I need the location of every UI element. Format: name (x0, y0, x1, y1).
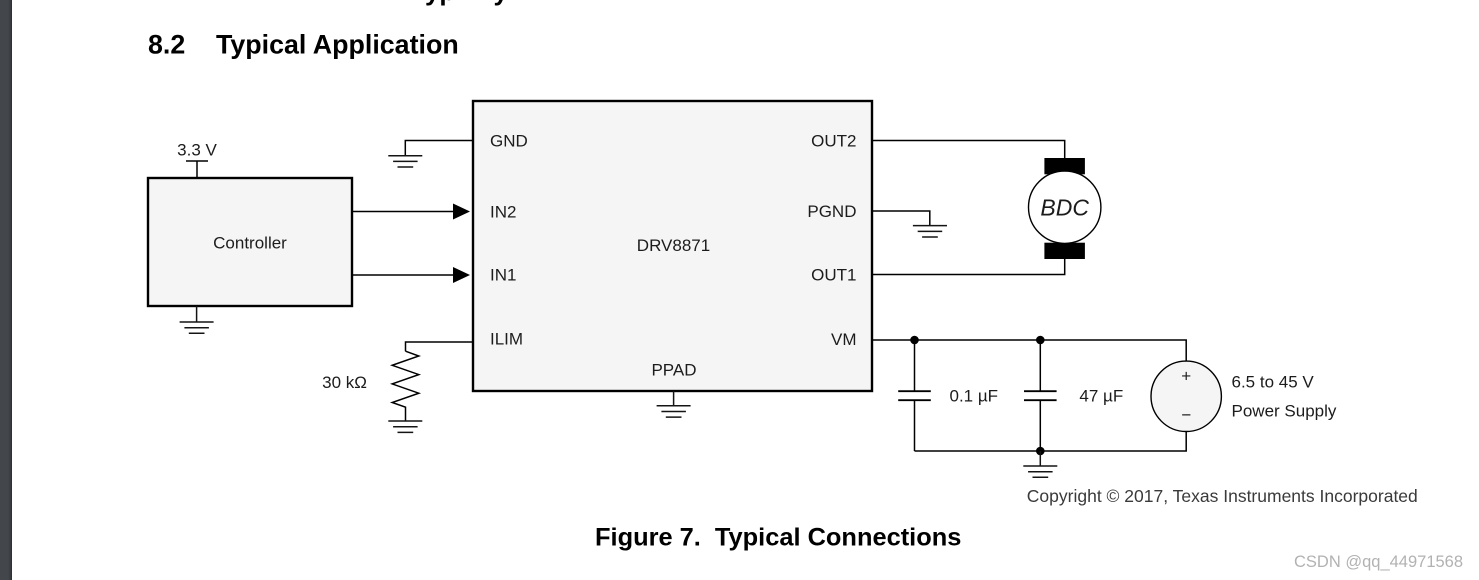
svg-text:PGND: PGND (807, 202, 856, 221)
wire IN1 with arrow (352, 267, 470, 283)
svg-text:Figure 7. Typical Connections: Figure 7. Typical Connections (595, 524, 961, 552)
wire VM rail (872, 340, 1186, 361)
resistor 30 kOhm (392, 351, 419, 421)
ground (supply rail) (1023, 451, 1057, 477)
svg-text:3.3 V: 3.3 V (177, 141, 217, 160)
svg-text:OUT2: OUT2 (811, 132, 856, 151)
svg-text:BDC: BDC (1040, 194, 1089, 220)
svg-text:47 µF: 47 µF (1079, 387, 1123, 406)
svg-text:OUT1: OUT1 (811, 265, 856, 284)
svg-text:0.1 µF: 0.1 µF (950, 387, 999, 406)
svg-text:IN1: IN1 (490, 266, 516, 285)
wire IN2 with arrow (352, 204, 470, 220)
svg-text:6.5 to 45 V: 6.5 to 45 V (1232, 372, 1315, 391)
junction dot VM/C2 (1036, 336, 1045, 345)
junction dot ground rail (1036, 447, 1045, 456)
svg-text:DRV8871: DRV8871 (637, 236, 710, 255)
motor BDC body (1029, 171, 1101, 243)
ground (GND pin) (388, 156, 422, 167)
capacitor C2 47 uF (1024, 340, 1057, 451)
svg-text:+: + (1181, 366, 1191, 385)
svg-text:Typical Application: Typical Application (216, 30, 459, 60)
wire PGND (872, 211, 930, 226)
svg-text:8.2: 8.2 (148, 30, 185, 60)
svg-text:−: − (1181, 405, 1191, 424)
ground (controller) (180, 306, 214, 333)
ground (PGND) (913, 226, 947, 237)
heading 8.2 Typical Application (148, 30, 459, 60)
power supply source V1 (1151, 361, 1221, 431)
junction dot VM/C1 (910, 336, 919, 345)
ground (PPAD) (657, 391, 691, 417)
svg-text:GND: GND (490, 132, 528, 151)
svg-text:CSDN @qq_44971568: CSDN @qq_44971568 (1294, 553, 1463, 571)
svg-text:IN2: IN2 (490, 203, 516, 222)
sidebar (0, 0, 12, 580)
wire OUT1 to motor (872, 259, 1065, 275)
ground (resistor) (388, 421, 422, 432)
svg-text:ILIM: ILIM (490, 330, 523, 349)
wire OUT2 to motor (872, 141, 1065, 159)
capacitor C1 0.1 uF (898, 340, 931, 451)
supply 3.3 V bar symbol (186, 161, 208, 178)
svg-text:PPAD: PPAD (651, 361, 696, 380)
svg-text:30 kΩ: 30 kΩ (322, 373, 367, 392)
wire ILIM (406, 342, 474, 351)
wire GND pin (405, 141, 473, 156)
svg-text:y: y (494, 0, 509, 6)
svg-text:Typ: Typ (411, 0, 455, 6)
clipped previous-line text fragment (411, 0, 509, 6)
motor BDC terminals (1044, 158, 1085, 174)
wire ground rail (915, 431, 1187, 451)
controller block (148, 178, 352, 306)
svg-text:Power Supply: Power Supply (1232, 401, 1337, 420)
IC U1 DRV8871 box (473, 101, 872, 391)
svg-text:Controller: Controller (213, 233, 287, 252)
svg-text:VM: VM (831, 330, 857, 349)
svg-text:Copyright © 2017, Texas Instru: Copyright © 2017, Texas Instruments Inco… (1027, 486, 1418, 506)
